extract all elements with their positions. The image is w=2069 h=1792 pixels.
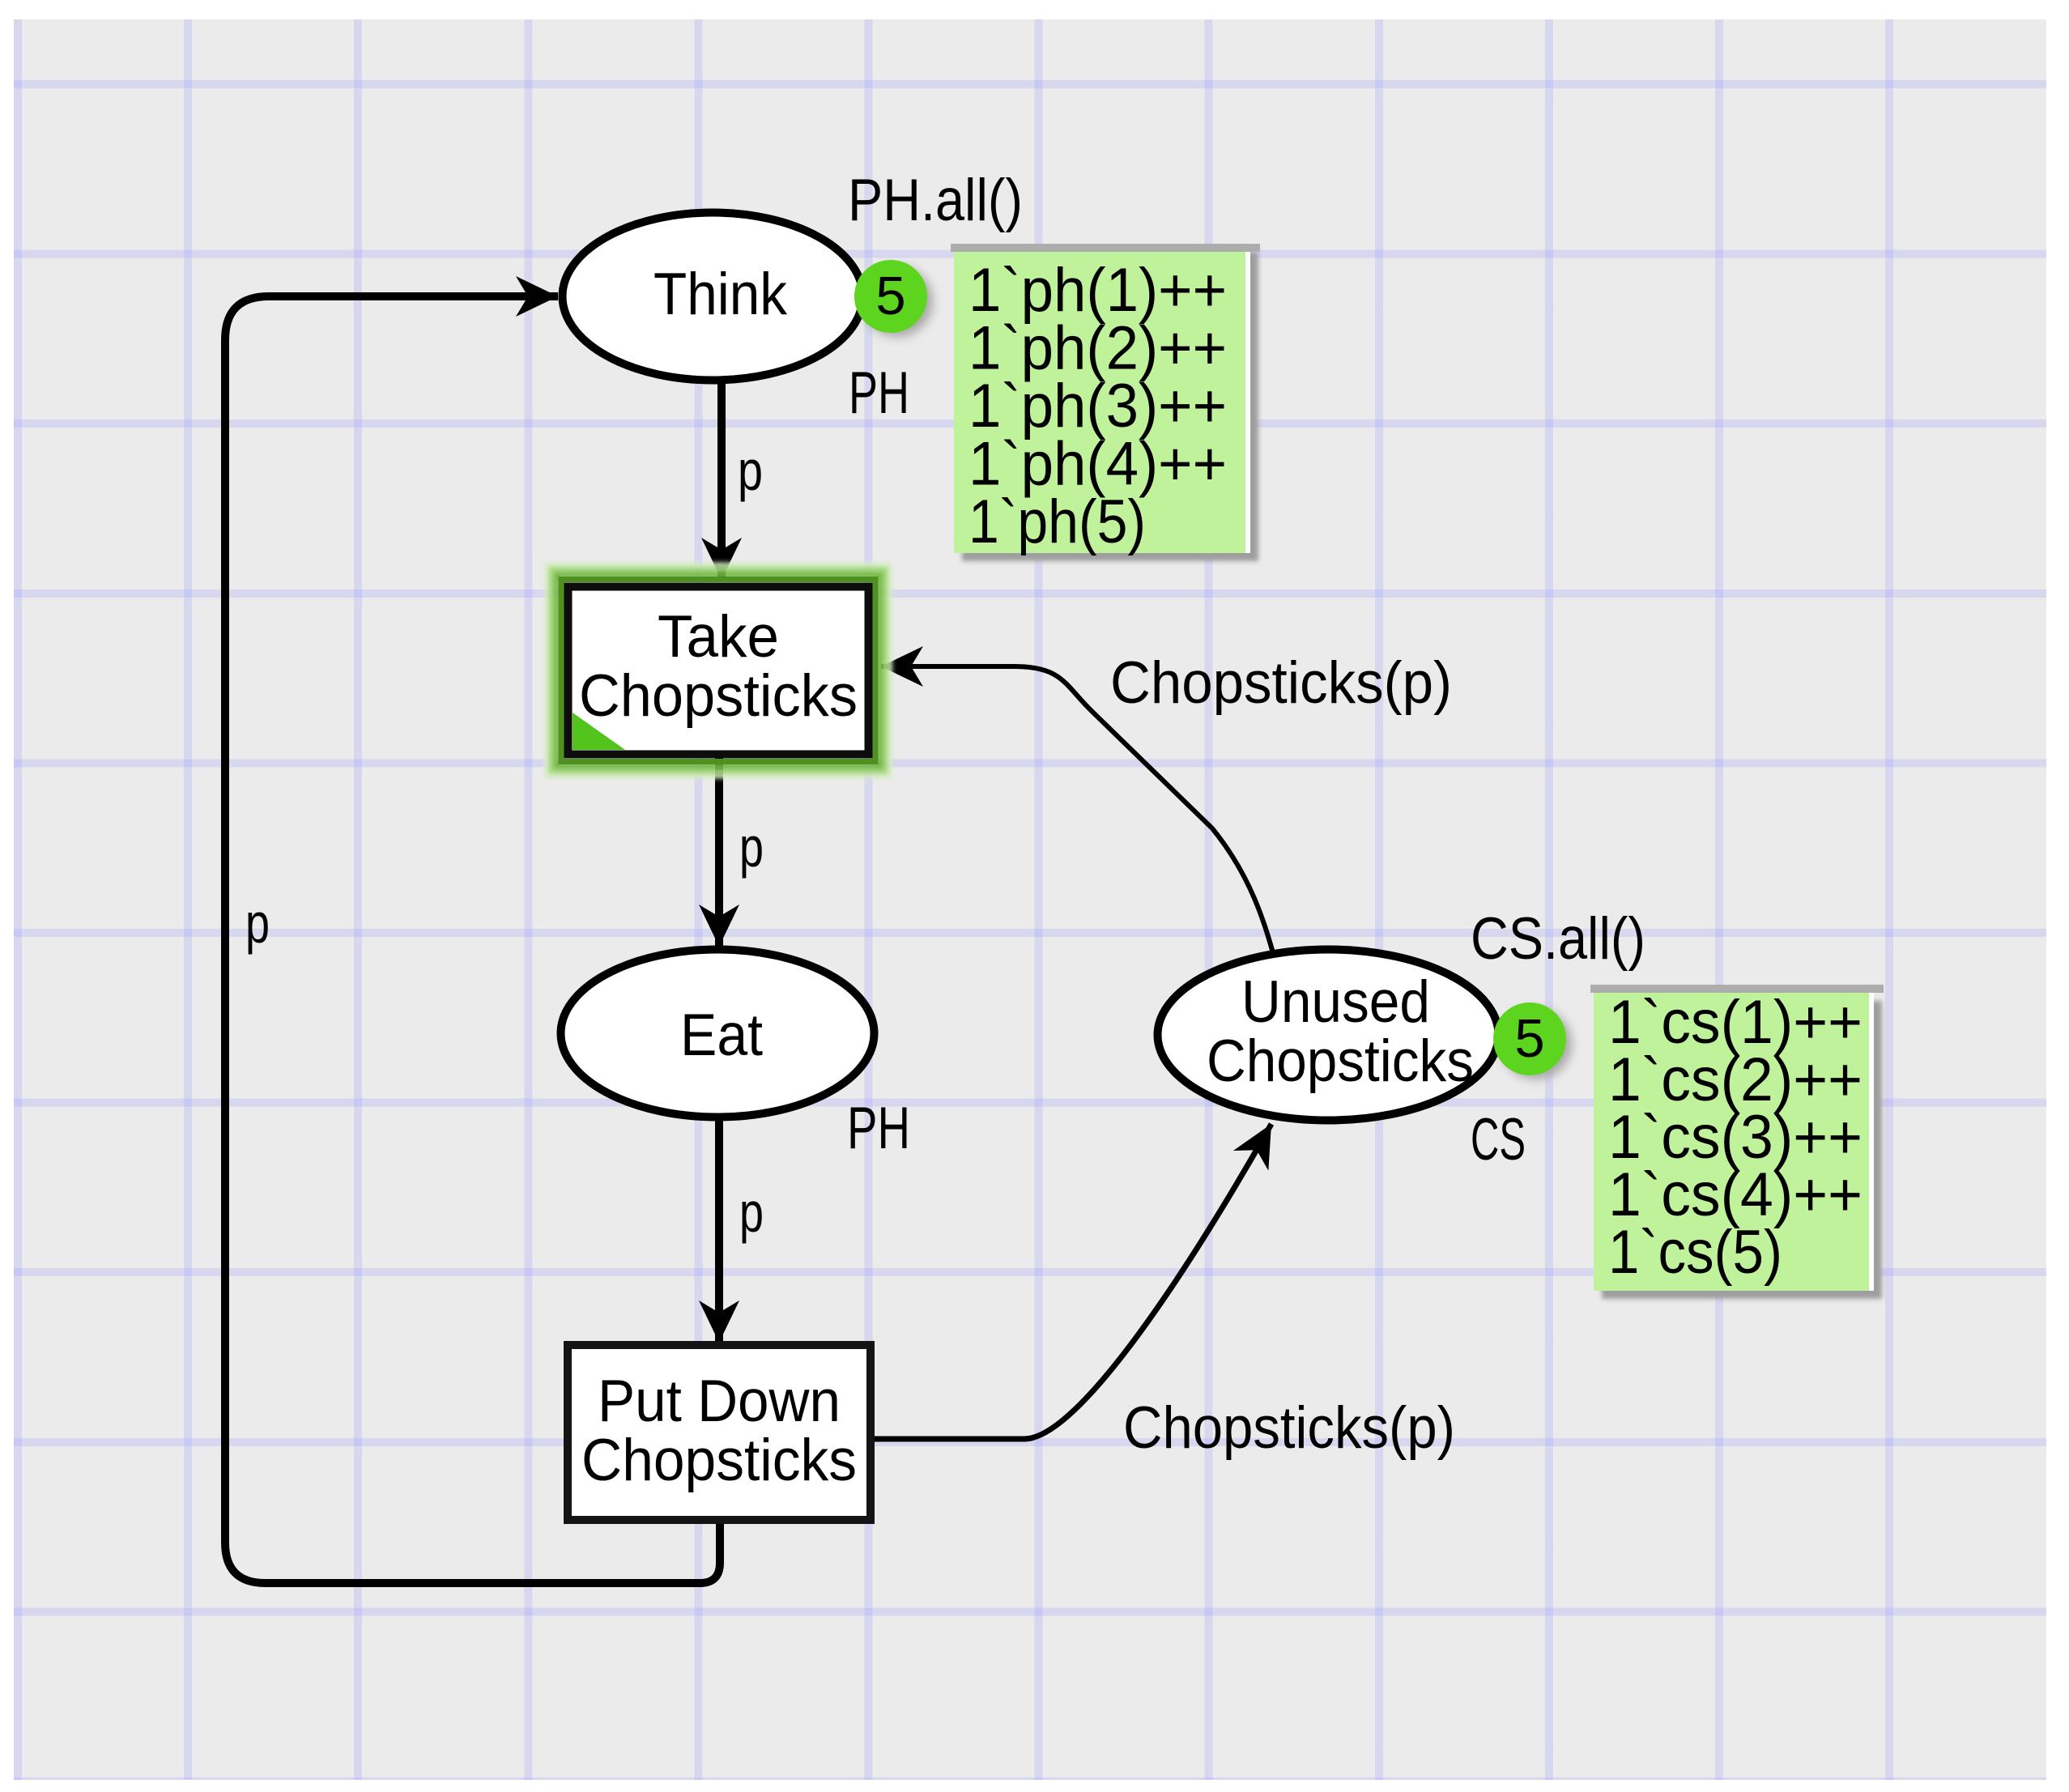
- svg-text:Chopsticks(p): Chopsticks(p): [1123, 1395, 1455, 1461]
- svg-text:Eat: Eat: [680, 1002, 763, 1068]
- svg-text:Unused: Unused: [1241, 969, 1430, 1035]
- svg-text:Chopsticks: Chopsticks: [581, 1428, 857, 1493]
- svg-text:Take: Take: [658, 604, 779, 670]
- svg-text:Chopsticks: Chopsticks: [1207, 1028, 1474, 1094]
- svg-text:p: p: [739, 815, 764, 879]
- svg-text:5: 5: [875, 266, 905, 326]
- svg-text:Think: Think: [653, 262, 787, 327]
- svg-text:p: p: [738, 439, 763, 502]
- svg-text:Chopsticks(p): Chopsticks(p): [1110, 650, 1452, 716]
- svg-text:CS: CS: [1471, 1107, 1526, 1173]
- svg-text:p: p: [739, 1181, 764, 1244]
- svg-text:1`cs(5): 1`cs(5): [1608, 1218, 1782, 1287]
- svg-text:CS.all(): CS.all(): [1471, 906, 1645, 972]
- svg-text:5: 5: [1514, 1008, 1544, 1069]
- svg-text:PH: PH: [847, 1096, 910, 1161]
- svg-text:Chopsticks: Chopsticks: [579, 663, 858, 729]
- svg-text:PH.all(): PH.all(): [848, 168, 1023, 233]
- svg-text:PH: PH: [849, 360, 909, 426]
- svg-text:1`ph(5): 1`ph(5): [969, 487, 1146, 556]
- svg-text:p: p: [245, 892, 270, 955]
- svg-text:Put Down: Put Down: [598, 1368, 841, 1434]
